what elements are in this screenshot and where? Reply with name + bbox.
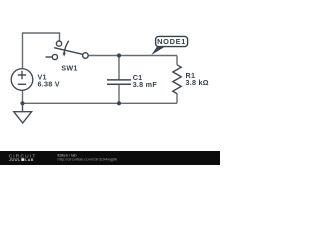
left throw stub [46,56,53,58]
wire top rail left [23,33,60,69]
node junction dot at V1 / ground [20,101,24,105]
arrowhead [63,53,66,57]
svg-text:http://circuitlab.com/c9r3c94x: http://circuitlab.com/c9r3c94xyjj6k [58,157,118,162]
svg-text:3.8 mF: 3.8 mF [133,80,158,89]
blade [54,48,82,55]
resistor R1 [173,65,181,94]
node junction dot C1 bottom [117,101,121,105]
node NODE1 callout box [156,36,188,46]
node NODE1 callout pointer [151,46,166,55]
watermark logo waveform [9,159,20,161]
watermark logo LAB [21,158,24,161]
svg-text:LAB: LAB [25,158,34,162]
svg-text:3.8 kΩ: 3.8 kΩ [186,78,209,87]
node junction dot C1 top [117,53,121,57]
ground [14,103,32,123]
actuator arrow [64,41,69,54]
wire mid rail [88,55,177,57]
pivot terminal [56,41,61,46]
wire capacitor leads [118,56,120,104]
capacitor C1 [107,80,131,84]
switch SW1 [46,41,89,60]
right terminal [83,53,89,59]
svg-text:SW1: SW1 [61,64,77,73]
wire R1 branch [176,56,178,104]
wire bottom rail [23,91,178,104]
voltage source V1 [11,69,33,91]
svg-text:NODE1: NODE1 [157,37,186,46]
watermark bar [0,151,220,165]
svg-text:6.38 V: 6.38 V [38,80,60,89]
